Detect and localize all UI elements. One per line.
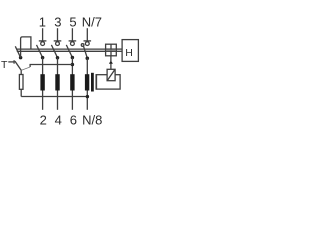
svg-text:N/7: N/7 [82, 14, 102, 29]
conductor pole 2 [57, 58, 59, 110]
junction dot pole 2 [56, 56, 60, 60]
switch blade pole 3 [66, 45, 72, 58]
contact ring pole 1 [41, 42, 45, 46]
switch blade pole 4 [84, 46, 88, 58]
contact ring pole 4 [85, 42, 89, 46]
mechanism bus through box [106, 48, 117, 50]
junction dot pole 4 [86, 57, 90, 61]
wire button to resistor [20, 70, 22, 74]
handle box H [122, 40, 138, 62]
conductor pole 3 [71, 58, 73, 110]
mechanical linkage bar [17, 50, 106, 52]
wire terminal 1 lead [42, 28, 44, 41]
test switch upper blade [15, 46, 20, 57]
contact crossbar pole 2 [54, 40, 62, 42]
junction dot test switch [19, 56, 23, 60]
test wire bus line [16, 48, 105, 50]
test button pusher link [8, 61, 14, 63]
svg-text:4: 4 [55, 112, 62, 127]
test wire hook to bus [21, 37, 31, 58]
junction dot test return on pole 4 [86, 95, 89, 98]
contact crossbar pole 1 [39, 40, 47, 42]
trip actuation arrowhead [109, 60, 113, 63]
wire resistor down [20, 89, 22, 96]
svg-text:T: T [1, 59, 8, 71]
svg-text:3: 3 [54, 14, 61, 29]
contact ring pole 2 [56, 42, 60, 46]
conductor pole 1 [42, 58, 44, 110]
test button pusher plate [13, 60, 15, 64]
switch blade pole 1 [37, 45, 43, 58]
test wire diagonal to button [21, 67, 30, 70]
test button blade [15, 61, 21, 70]
CT primary winding pole 1 [40, 74, 44, 90]
test wire from pole 3 to test button [30, 65, 72, 68]
contact crossbar pole 4 [84, 40, 92, 42]
resistor test [19, 75, 23, 90]
svg-text:1: 1 [39, 14, 46, 29]
wire terminal 5 lead [71, 28, 73, 41]
trip relay K [107, 69, 115, 80]
mechanism box center line [110, 44, 112, 56]
CT primary winding pole 4 [85, 74, 89, 90]
test return wire to N [21, 96, 87, 98]
mechanism box [106, 44, 117, 56]
CT primary winding pole 2 [55, 74, 59, 90]
test tap circle on pole 4 blade [81, 44, 84, 47]
wire terminal N/7 lead [86, 28, 88, 41]
CT secondary loop left edge thick [95, 74, 97, 89]
CT secondary loop [96, 75, 120, 89]
junction dot pole 1 [41, 56, 45, 60]
contact crossbar pole 3 [69, 40, 77, 42]
svg-text:6: 6 [70, 112, 77, 127]
CT secondary winding bar [91, 73, 94, 92]
conductor pole 4 [86, 58, 88, 110]
svg-text:2: 2 [40, 112, 47, 127]
junction dot test tap pole 3 [71, 63, 75, 67]
svg-text:H: H [125, 47, 133, 59]
CT primary winding pole 3 [70, 74, 74, 90]
switch blade pole 2 [51, 45, 57, 58]
svg-text:N/8: N/8 [82, 112, 102, 127]
junction dot pole 3 [71, 56, 75, 60]
svg-text:5: 5 [69, 14, 76, 29]
trip actuation pin [110, 64, 112, 70]
trip relay diagonal [107, 70, 114, 81]
wire terminal 3 lead [57, 28, 59, 41]
contact ring pole 3 [71, 42, 75, 46]
